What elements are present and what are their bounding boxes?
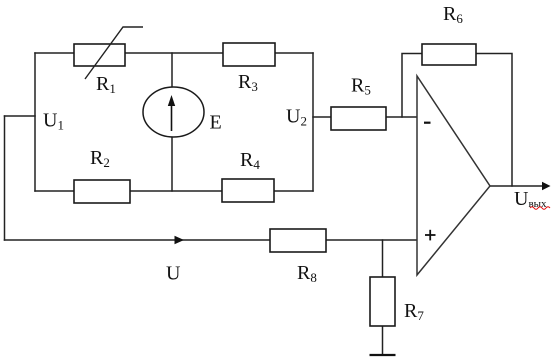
svg-text:U: U [166,262,181,284]
resistor R1 [74,44,125,66]
op-amp plus pin [425,230,436,241]
resistor R2 [74,180,130,203]
resistor R7 [370,277,395,326]
wire left outer vertical [4,116,6,240]
resistor R3 [223,43,275,66]
wire E branch [171,53,173,191]
wire output [490,185,543,187]
op-amp minus pin [424,122,431,124]
wire bottom U line to plus input [5,239,418,241]
resistor R6 [422,44,476,65]
source E [143,87,204,137]
output arrowhead [542,182,551,191]
wire R7 branch [382,240,384,355]
wire U1 tap [5,115,36,117]
resistor R8 [270,229,326,252]
ground [370,354,396,356]
resistor R4 [222,179,274,202]
wire bridge bottom [35,190,313,192]
wire U2 to R5 and minus input [313,116,417,118]
wire feedback left vertical [402,54,422,118]
resistor R5 [331,107,386,130]
wire bridge top [35,52,313,54]
arrow on U wire [175,236,185,245]
R1 adjustment arrow [85,27,143,79]
op-amp U1 [417,76,490,275]
svg-text:E: E [210,112,222,134]
spellcheck squiggle under vyh [530,207,550,210]
wire bridge left [34,53,36,191]
wire R6 right to output [476,54,512,187]
wire bridge right [312,53,314,191]
